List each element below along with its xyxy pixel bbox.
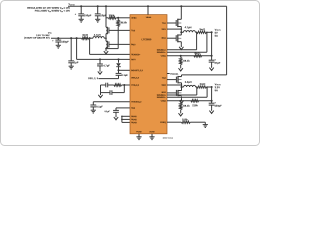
svg-text:68.1k: 68.1k [183,60,190,63]
ground 1uF [69,65,74,67]
wire SENSE3+ line [89,38,91,54]
wire buck2 drain [181,75,183,77]
capacitor 150uF VOUT2 [211,101,213,103]
op-amp U1 LTC3859 body [130,15,167,134]
wire MB2 source [181,96,183,98]
junction VOUT2 cap [211,100,213,102]
junction FB2 [180,100,182,102]
card background [1,1,260,146]
inductor 3.3uH buck2 [182,86,184,88]
ground buck2 fets [181,98,183,100]
ground buck1 fets [180,45,182,47]
capacitor 150uF VOUT3 [80,6,82,14]
ground ITH [100,93,102,95]
svg-text:86.6k: 86.6k [121,21,128,24]
resistor 68.1k buck2 [180,101,182,103]
wire VIN rail [51,37,81,39]
junction VOUT2 [211,86,213,88]
svg-text:PGND: PGND [136,130,142,133]
svg-text:3mΩ: 3mΩ [82,34,88,37]
ground C3 [56,44,61,46]
wire rail to buck2 drain [182,74,227,76]
svg-text:VFB2: VFB2 [161,100,167,103]
wire FB3 bottom to gnd node [117,27,119,49]
wire VFB1 line [167,55,212,57]
junction RUN1 [121,116,123,118]
resistor 100k [108,17,116,19]
wire SENSE2+ line [167,94,197,96]
svg-text:150µF: 150µF [214,105,222,108]
wire RUN bus [121,116,123,122]
wire MB3 source [105,48,107,49]
svg-text:TRK/SS1,2: TRK/SS1,2 [131,101,142,104]
svg-text:3mΩ: 3mΩ [200,83,206,86]
ground C1 [79,18,84,20]
capacitor ITH parallel [109,90,111,95]
wire VOUT1 down [211,32,213,56]
wire ITH to pin [122,84,130,86]
wire ITH loop left [101,84,106,86]
wire to FB3 node [116,17,130,19]
svg-text:150µF: 150µF [84,14,92,17]
svg-text:100k: 100k [109,14,115,17]
ground 4.7uF [99,69,101,71]
ground VOUT1 cap [211,65,213,67]
junction SW2-L [180,86,182,88]
wire ITH down [123,85,125,93]
svg-text:3mΩ: 3mΩ [199,28,205,31]
junction rail-buck1 [180,5,182,7]
wire SENSE1- line [167,51,207,53]
junction VOUT1 [211,31,213,33]
wire MB1 source [180,42,182,45]
ground SGND [149,136,154,138]
wire VFB2 line [167,100,212,102]
svg-text:RUN1: RUN1 [131,115,137,118]
ground SS1 [91,109,96,111]
wire VBIAS pin [147,6,149,14]
junction rail-C1 [80,5,82,7]
wire SS3 pin [116,107,130,109]
svg-text:215k: 215k [192,104,198,107]
svg-text:1µF: 1µF [74,61,79,64]
junction intvcc-4.7uF [99,58,101,60]
junction RUN2 [121,119,123,121]
wire SGND stub [151,134,153,137]
resistor sense buck1 [195,31,196,33]
junction VIN-intvcc [76,37,78,39]
resistor 100k FREQ [181,121,190,123]
svg-text:INTV: INTV [131,58,136,61]
wire TRACK/SS pin [93,101,130,103]
wire ITH gnd drop [100,85,102,93]
wire CB return [99,78,119,80]
svg-text:357k: 357k [194,52,200,55]
wire RUN1 stub [122,115,130,117]
wire rail right drop [226,6,228,75]
svg-text:3.3µH: 3.3µH [185,81,192,84]
ground FB1 [180,65,182,66]
capacitor 150uF VIN [57,38,59,40]
ground PGND [136,136,141,138]
ground boost fets [105,49,107,51]
junction senseR [89,37,91,39]
svg-text:FREQ: FREQ [160,121,166,124]
svg-text:68.1k: 68.1k [183,105,190,108]
wire PGND stub [138,134,140,137]
svg-text:4.7µF: 4.7µF [103,65,110,68]
junction VOUT1 cap [211,55,213,57]
svg-text:VBIAS: VBIAS [146,16,152,19]
wire boost drain column [105,6,107,27]
wire sense-inductor [89,37,93,39]
wire SENSE1+ line [167,49,197,51]
resistor sense buck2 [196,86,197,88]
svg-text:(START-UP ABOVE 5V): (START-UP ABOVE 5V) [24,37,50,40]
svg-text:SW1,2,3: SW1,2,3 [131,76,140,79]
inductor 4.7uH buck1 [181,31,183,33]
svg-text:5A: 5A [215,89,218,92]
capacitor 0.1uF boost [118,70,120,73]
resistor sense 3mohm boost [81,37,88,39]
transistor MT2 (buck2 top) [177,76,179,84]
wire RUN3 stub [122,121,130,123]
junction VIN-C3 [57,37,59,39]
wire BOOST pin [119,69,131,71]
svg-text:PGOOD1: PGOOD1 [170,73,178,76]
wire to VOUT1 node [207,31,212,33]
wire SW3 column [105,34,107,42]
wire FREQ pin [167,121,181,123]
wire inductor-SW3 [104,37,106,39]
capacitor 0.1uF SS3 [115,108,117,111]
transistor MT3 (boost top) [106,27,108,34]
svg-text:0.1µF: 0.1µF [96,106,103,109]
ground SS3 [115,115,117,117]
svg-text:0.1µF: 0.1µF [121,74,128,77]
svg-text:150µF: 150µF [61,41,69,44]
junction intvcc-diode [117,58,119,60]
junction rail-VBIAS [147,5,149,7]
diode DB [118,59,120,62]
svg-text:100k: 100k [182,118,188,121]
capacitor 47uF VOUT1 [211,56,213,60]
svg-text:0.1µF: 0.1µF [104,110,110,113]
inductor 4.7uH boost [93,37,104,39]
wire VFB3 tap [106,17,108,19]
svg-text:47µF: 47µF [214,62,220,65]
wire SENSE2- line [167,96,207,98]
capacitor 0.1uF SS1 [92,102,94,105]
wire buck1 drain [180,6,182,19]
svg-text:SENSE3+: SENSE3+ [131,53,141,56]
wire INTVCC feed [76,38,78,59]
junction FB3 node [117,17,119,19]
wire SW2 column [181,83,183,91]
svg-text:SENSE2–: SENSE2– [157,96,167,99]
wire to VOUT2 node [207,86,212,88]
transistor MB2 (buck2 bottom) [177,90,179,96]
junction boost pin node [117,69,119,71]
wire FREQ to gnd [190,121,205,123]
ground VOUT2 cap [211,108,213,110]
wire SW1 pin [167,28,181,30]
junction SW1-L [180,31,182,33]
svg-text:RUN3: RUN3 [131,121,137,124]
svg-text:SGND: SGND [149,130,155,133]
capacitor 1uF [70,38,72,61]
svg-text:4.7µH: 4.7µH [94,34,101,37]
svg-text:LTC3859: LTC3859 [141,38,151,41]
resistor 86.6k [117,18,119,20]
transistor MB1 (buck1 bottom) [177,34,179,42]
wire VOUT3 rail [68,5,227,7]
svg-text:3859 TA01b: 3859 TA01b [163,137,174,140]
svg-text:SENSE1–: SENSE1– [157,51,167,54]
resistor ITH 15k [114,84,122,86]
transistor MT1 (buck1 top) [177,19,179,27]
transistor MB3 (boost bottom) [106,41,108,48]
capacitor 4.7uF [99,59,101,64]
junction rail-C2 [97,5,99,7]
capacitor 10uF VOUT3 [97,6,99,14]
svg-text:RUN2: RUN2 [131,118,137,121]
wire RUN2 stub [122,118,130,120]
wire VOUT2 down [211,87,213,101]
capacitor ITH series [105,83,107,88]
ground FB2 [180,110,182,111]
junction ITH [123,84,125,86]
wire SW1 column [180,27,182,36]
svg-text:FOLLOWS VIN WHEN VIN < 10V: FOLLOWS VIN WHEN VIN < 10V [35,10,71,13]
svg-text:BOOST1,2,3: BOOST1,2,3 [131,69,143,72]
ground C2 [95,18,100,20]
svg-text:5A: 5A [215,35,218,38]
svg-text:VFB3: VFB3 [131,17,137,20]
resistor 357k buck1 [194,55,202,57]
svg-text:ITH1,2,3: ITH1,2,3 [131,84,140,87]
svg-text:DB1, 2, 3: DB1, 2, 3 [88,77,98,80]
svg-text:VFB1: VFB1 [161,55,167,58]
ground FREQ [203,124,208,126]
resistor 215k buck2 [191,100,199,102]
junction rail-boost [105,5,107,7]
wire PGOOD1 stub [167,73,170,75]
junction FB1 [180,55,182,57]
junction VIN-1uF [70,37,72,39]
wire SW2 pin stub [167,84,182,86]
svg-text:4.7µH: 4.7µH [185,26,192,29]
resistor 68.1k buck1 [180,56,182,58]
